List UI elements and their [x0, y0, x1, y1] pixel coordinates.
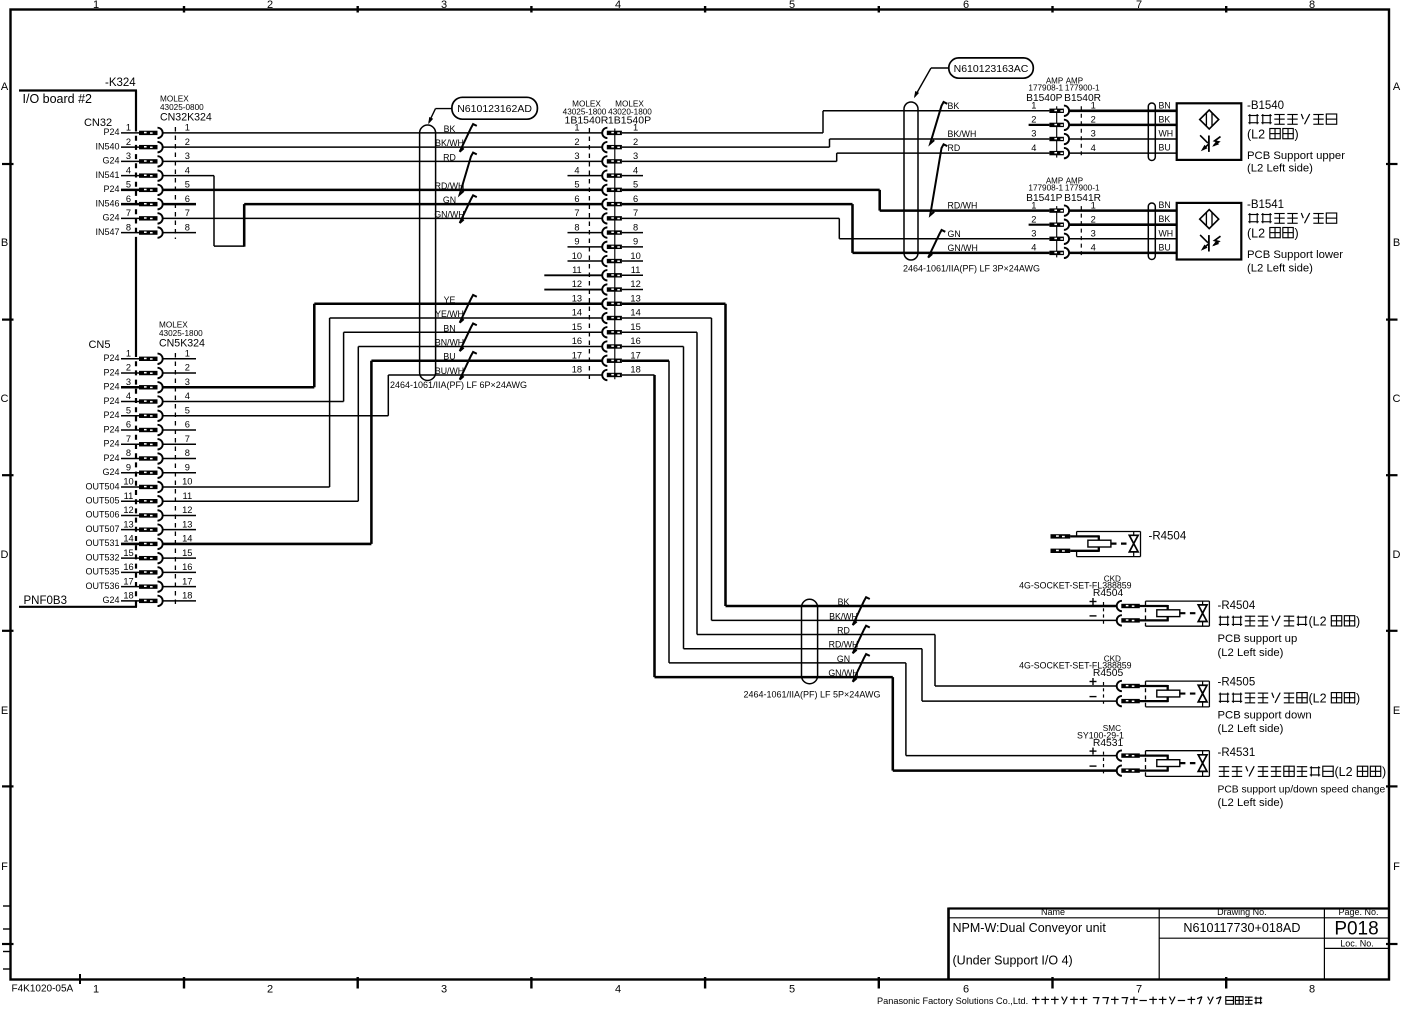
svg-text:9: 9 — [633, 237, 638, 247]
frame column ticks — [184, 6, 1226, 989]
svg-text:N610123162AD: N610123162AD — [457, 103, 532, 115]
connector B1541P/B1541R pin 1 — [1049, 205, 1069, 215]
svg-text:7: 7 — [1136, 984, 1142, 996]
svg-text:(L2: (L2 — [1247, 227, 1265, 241]
connector CN32 pin 7 (G24) — [102, 208, 189, 224]
svg-text:G24: G24 — [102, 213, 119, 223]
wire CN32-1 to 1B1540R-1 (BK) — [163, 132, 602, 134]
svg-text:14: 14 — [123, 534, 133, 544]
connector CN32 pin 3 (G24) — [102, 151, 189, 167]
svg-text:1B1540P: 1B1540P — [608, 114, 651, 126]
svg-text:6: 6 — [963, 0, 969, 11]
connector B1540P/B1540R pin 2 — [1049, 120, 1069, 130]
wire B1540R-2 to sensor (BK) — [1069, 124, 1177, 127]
svg-text:3: 3 — [1031, 129, 1036, 139]
connector CN5 pin 4 (P24) — [103, 391, 189, 407]
svg-text:C: C — [1393, 393, 1401, 405]
solenoid valve coil R4504 — [1090, 598, 1210, 626]
wire B1541R-4 to sensor (BU) — [1069, 252, 1177, 255]
svg-text:6: 6 — [963, 984, 969, 996]
sensor cable sheath B1540 — [1148, 103, 1155, 161]
wire 1B1540P-1 to B1540P-1 (BK) — [622, 111, 1050, 133]
svg-text:6: 6 — [574, 194, 579, 204]
connector CN5 pin 9 (G24) — [102, 462, 189, 478]
svg-text:1: 1 — [1031, 200, 1036, 210]
svg-text:(L2 Left side): (L2 Left side) — [1247, 262, 1313, 274]
svg-text:4: 4 — [615, 0, 621, 11]
connector CN5 pin 18 (G24) — [102, 591, 192, 607]
svg-text:BU: BU — [1159, 143, 1171, 153]
connector 1B1540R/1B1540P pin 3 — [574, 151, 638, 167]
valve R4504 spare symbol — [1051, 532, 1141, 557]
svg-text:15: 15 — [572, 322, 582, 332]
connector 1B1540R/1B1540P pin 11 — [572, 265, 640, 281]
svg-text:6: 6 — [185, 420, 190, 430]
svg-text:OUT506: OUT506 — [85, 510, 119, 520]
frame grid letters — [1, 81, 1401, 873]
svg-text:BN: BN — [1159, 200, 1171, 210]
wire 1B1540P-17 to R4531 plus (GN) — [622, 361, 1117, 756]
svg-text:BK: BK — [948, 101, 960, 111]
connector B1540P/B1540R pin 4 — [1049, 148, 1069, 158]
svg-text:GN/WH: GN/WH — [948, 243, 978, 253]
svg-text:P24: P24 — [103, 439, 119, 449]
svg-text:177908-1: 177908-1 — [1028, 84, 1063, 93]
svg-text:PCB support down: PCB support down — [1218, 709, 1312, 721]
wire stubs 1B1540P right unused — [622, 176, 643, 290]
svg-text:PCB Support upper: PCB Support upper — [1247, 150, 1345, 162]
svg-text:CN5: CN5 — [88, 339, 110, 351]
svg-text:16: 16 — [572, 336, 582, 346]
svg-text:2: 2 — [267, 984, 273, 996]
wire B1540R-1 to sensor (BN) — [1069, 110, 1177, 113]
svg-text:5: 5 — [789, 0, 795, 11]
svg-text:PCB support up/down speed chan: PCB support up/down speed change — [1218, 785, 1386, 796]
svg-text:P24: P24 — [103, 453, 119, 463]
svg-text:11: 11 — [631, 265, 641, 275]
valve R4531 text labels — [1218, 747, 1387, 809]
svg-text:Page. No.: Page. No. — [1338, 907, 1378, 917]
svg-text:B: B — [1, 237, 8, 249]
svg-text:OUT532: OUT532 — [85, 552, 119, 562]
cable sheath N610123162AD (6P) — [420, 125, 436, 381]
svg-text:RD: RD — [443, 152, 456, 162]
valve R4504 spare label — [1149, 531, 1187, 543]
connector CN5 pin 7 (P24) — [103, 434, 189, 450]
connector pair B1540P B1540R labels — [1026, 77, 1101, 158]
svg-text:PCB support up: PCB support up — [1218, 633, 1298, 645]
svg-text:7: 7 — [574, 208, 579, 218]
svg-text:1B1540R: 1B1540R — [565, 114, 609, 126]
svg-text:RD/WH: RD/WH — [829, 640, 859, 650]
svg-text:14: 14 — [182, 534, 192, 544]
svg-text:YE/WH: YE/WH — [435, 309, 464, 319]
svg-text:4: 4 — [1031, 243, 1036, 253]
svg-text:1: 1 — [1091, 101, 1096, 111]
svg-text:2: 2 — [633, 137, 638, 147]
svg-text:BK: BK — [444, 124, 456, 134]
svg-text:OUT536: OUT536 — [85, 581, 119, 591]
svg-text:2: 2 — [1091, 214, 1096, 224]
wire CN5-4 to 1B1540R-15 (BN) — [163, 332, 602, 401]
svg-text:3: 3 — [185, 377, 190, 387]
connector 1B1540R/1B1540P pin 15 — [572, 322, 641, 338]
svg-text:OUT505: OUT505 — [85, 496, 119, 506]
wire CN32-5 to 1B1540R-5 (RD/WH) — [163, 189, 602, 192]
svg-text:BN: BN — [1159, 100, 1171, 110]
wire 1B1540P-5 to B1541P-1 (RD/WH) — [622, 190, 1050, 211]
connector 1B1540R/1B1540P pin 5 — [574, 180, 638, 196]
svg-text:2: 2 — [1031, 115, 1036, 125]
valve R4504 text labels — [1218, 600, 1361, 659]
svg-text:43025-0800: 43025-0800 — [160, 103, 204, 112]
wire stubs CN5 unused pins — [163, 359, 196, 601]
svg-text:1: 1 — [126, 123, 131, 133]
svg-text:N610123163AC: N610123163AC — [954, 63, 1029, 75]
svg-text:3: 3 — [1091, 229, 1096, 239]
connector CN32 pin 5 (P24) — [103, 180, 189, 196]
svg-text:3: 3 — [185, 151, 190, 161]
svg-text:15: 15 — [123, 548, 133, 558]
connector CN5 pin 13 (OUT507) — [85, 519, 192, 535]
valve R4504 part labels — [1019, 575, 1132, 599]
svg-text:1: 1 — [185, 123, 190, 133]
svg-text:18: 18 — [572, 365, 582, 375]
svg-text:2: 2 — [185, 363, 190, 373]
svg-text:G24: G24 — [102, 595, 119, 605]
svg-text:13: 13 — [182, 519, 192, 529]
connector B1541P/B1541R pin 2 — [1049, 220, 1069, 230]
svg-text:2: 2 — [1091, 115, 1096, 125]
svg-text:IN541: IN541 — [95, 170, 119, 180]
svg-text:12: 12 — [182, 505, 192, 515]
svg-text:2: 2 — [267, 0, 273, 11]
connector pair 1B1540R 1B1540P labels — [563, 100, 653, 127]
connector CN5 pin 10 (OUT504) — [85, 477, 192, 493]
svg-text:F: F — [1, 861, 8, 873]
connector CN32 dashed boundary — [174, 127, 176, 239]
svg-text:(L2 Left side): (L2 Left side) — [1218, 647, 1284, 659]
cable label balloon N610123162AD — [428, 97, 537, 124]
svg-text:7: 7 — [185, 208, 190, 218]
connector B1541P/B1541R pin 4 — [1049, 248, 1069, 258]
svg-text:3: 3 — [1031, 229, 1036, 239]
svg-text:P24: P24 — [103, 424, 119, 434]
valve R4531 part labels — [1077, 724, 1124, 749]
svg-text:P24: P24 — [103, 184, 119, 194]
svg-text:1: 1 — [126, 349, 131, 359]
svg-text:BK: BK — [1159, 114, 1171, 124]
connector CN5 pin 14 (OUT531) — [85, 534, 192, 550]
svg-text:1: 1 — [93, 0, 99, 11]
connector 1B1540R/1B1540P pin 7 — [574, 208, 638, 224]
svg-text:8: 8 — [185, 448, 190, 458]
svg-text:2: 2 — [1031, 214, 1036, 224]
connector CN5 pin 12 (OUT506) — [85, 505, 192, 521]
connector CN5 pin 2 (P24) — [103, 363, 189, 379]
svg-text:BU: BU — [443, 352, 455, 362]
wire 1B1540P-15 to R4505 plus (RD) — [622, 332, 1117, 686]
svg-text:-K324: -K324 — [105, 77, 136, 89]
svg-text:11: 11 — [124, 491, 134, 501]
cable spec 5P x 24AWG — [744, 690, 881, 700]
svg-text:1: 1 — [1091, 200, 1096, 210]
connector CN5 / CN5K324 labels — [88, 321, 205, 352]
svg-text:177908-1: 177908-1 — [1028, 183, 1063, 192]
connector CN32 pin 2 (IN540) — [95, 137, 189, 153]
svg-text:4: 4 — [615, 984, 621, 996]
svg-text:R4504: R4504 — [1093, 588, 1124, 599]
svg-text:4: 4 — [1091, 143, 1096, 153]
svg-text:N610117730+018AD: N610117730+018AD — [1183, 921, 1300, 935]
svg-text:2464-1061/IIA(PF) LF 3P×24AWG: 2464-1061/IIA(PF) LF 3P×24AWG — [903, 263, 1040, 273]
svg-text:4: 4 — [185, 391, 190, 401]
svg-text:1: 1 — [93, 984, 99, 996]
wire CN5-11 to 1B1540R-16 (BN/WH) — [163, 347, 602, 502]
svg-text:13: 13 — [630, 293, 640, 303]
svg-text:D: D — [1, 549, 9, 561]
wire colour labels on 5P cable — [828, 597, 869, 682]
photoelectric sensor B1541 — [1177, 203, 1242, 260]
svg-text:BK/WH: BK/WH — [435, 138, 464, 148]
svg-text:P24: P24 — [103, 396, 119, 406]
connector CN5 pin 15 (OUT532) — [85, 548, 192, 564]
svg-text:4: 4 — [126, 391, 131, 401]
connector CN5 pin 6 (P24) — [103, 420, 189, 436]
svg-text:2: 2 — [574, 137, 579, 147]
svg-text:RD/WH: RD/WH — [435, 181, 465, 191]
svg-text:8: 8 — [1309, 984, 1315, 996]
svg-text:BK: BK — [838, 597, 850, 607]
wire 1B1540P-13 to R4504 plus (BK) — [622, 304, 1117, 606]
connector CN32 pin 1 (P24) — [103, 123, 189, 139]
svg-text:15: 15 — [182, 548, 192, 558]
svg-text:P24: P24 — [103, 382, 119, 392]
svg-text:17: 17 — [572, 350, 582, 360]
svg-text:1: 1 — [185, 349, 190, 359]
svg-text:9: 9 — [574, 237, 579, 247]
svg-text:WH: WH — [1159, 228, 1174, 238]
svg-text:IN547: IN547 — [95, 227, 119, 237]
svg-text:BK: BK — [1159, 214, 1171, 224]
svg-text:16: 16 — [182, 562, 192, 572]
svg-text:10: 10 — [182, 477, 192, 487]
form number F4K1020-05A — [12, 984, 74, 995]
wire CN5-3 to 1B1540R-13 (YE) — [163, 304, 602, 388]
connector 1B1540R/1B1540P pin 18 — [572, 365, 641, 381]
svg-text:GN: GN — [837, 654, 850, 664]
title block — [949, 907, 1390, 980]
svg-text:18: 18 — [123, 591, 133, 601]
svg-text:(L2: (L2 — [1247, 128, 1265, 142]
svg-text:): ) — [1295, 227, 1299, 241]
svg-text:7: 7 — [185, 434, 190, 444]
svg-text:177900-1: 177900-1 — [1065, 183, 1100, 192]
svg-text:7: 7 — [126, 208, 131, 218]
svg-text:7: 7 — [126, 434, 131, 444]
svg-text:BN/WH: BN/WH — [435, 338, 464, 348]
svg-text:OUT504: OUT504 — [85, 481, 119, 491]
connector 1B1540R/1B1540P pin 13 — [572, 293, 641, 309]
svg-text:Loc. No.: Loc. No. — [1340, 939, 1374, 949]
svg-text:A: A — [1, 81, 9, 93]
svg-text:Panasonic Factory Solutions Co: Panasonic Factory Solutions Co.,Ltd. — [877, 996, 1028, 1006]
svg-text:BK/WH: BK/WH — [948, 129, 977, 139]
svg-text:IN540: IN540 — [95, 141, 119, 151]
svg-text:16: 16 — [123, 562, 133, 572]
svg-text:17: 17 — [182, 576, 192, 586]
connector CN5 pin 3 (P24) — [103, 377, 189, 393]
svg-text:): ) — [1382, 765, 1386, 779]
wire colour labels on 3P cable — [928, 101, 978, 258]
svg-text:GN/WH: GN/WH — [434, 209, 464, 219]
svg-text:CN5K324: CN5K324 — [159, 338, 205, 350]
svg-text:1: 1 — [633, 123, 638, 133]
connector 1B1540R/1B1540P pin 14 — [572, 308, 641, 324]
wire 1B1540P-2 to B1540P-3 (BK/WH) — [622, 139, 1050, 147]
svg-text:I/O board #2: I/O board #2 — [23, 92, 93, 106]
svg-text:11: 11 — [182, 491, 192, 501]
svg-text:4: 4 — [574, 165, 579, 175]
connector B1540P/B1540R pin 3 — [1049, 134, 1069, 144]
svg-text:4: 4 — [633, 165, 638, 175]
svg-text:2464-1061/IIA(PF) LF 6P×24AWG: 2464-1061/IIA(PF) LF 6P×24AWG — [390, 380, 527, 390]
svg-text:12: 12 — [123, 505, 133, 515]
svg-text:5: 5 — [126, 180, 131, 190]
svg-text:P24: P24 — [103, 367, 119, 377]
connector 1B1540 body line — [614, 129, 616, 380]
svg-text:6: 6 — [126, 420, 131, 430]
connector 1B1540R/1B1540P pin 9 — [574, 237, 638, 253]
svg-text:2: 2 — [126, 363, 131, 373]
svg-text:PCB Support lower: PCB Support lower — [1247, 249, 1343, 261]
svg-text:15: 15 — [630, 322, 640, 332]
svg-text:-B1540: -B1540 — [1247, 100, 1284, 112]
connector CN5 pin 16 (OUT535) — [85, 562, 192, 578]
svg-text:3: 3 — [126, 377, 131, 387]
connector 1B1540R/1B1540P pin 4 — [574, 165, 638, 181]
svg-text:4: 4 — [126, 165, 131, 175]
connector B1541P/B1541R pin 3 — [1049, 234, 1069, 244]
wire CN5-14 to 1B1540R-17 (BU) — [163, 361, 602, 544]
connector 1B1540R/1B1540P pin 17 — [572, 350, 641, 366]
sensor wire labels B1541 — [1159, 200, 1174, 252]
svg-text:6: 6 — [185, 194, 190, 204]
svg-text:3: 3 — [126, 151, 131, 161]
wire 1B1540P-3 to B1540P-4 (RD) — [622, 153, 1050, 161]
connector CN32 pin 4 (IN541) — [95, 165, 189, 181]
svg-text:F: F — [1393, 861, 1400, 873]
connector CN5 dashed boundary — [174, 353, 176, 606]
svg-text:YE: YE — [444, 295, 456, 305]
connector CN32 / CN32K324 labels — [84, 95, 212, 130]
svg-text:F4K1020-05A: F4K1020-05A — [12, 984, 74, 995]
svg-text:BN: BN — [443, 323, 455, 333]
node PNF0B3 — [19, 595, 137, 607]
svg-text:8: 8 — [126, 448, 131, 458]
cable spec 3P x 24AWG — [903, 263, 1040, 273]
svg-text:R4505: R4505 — [1093, 668, 1124, 679]
company name footer — [877, 996, 1262, 1006]
connector CN32 pin 8 (IN547) — [95, 222, 189, 238]
I/O board K324 outline — [19, 77, 137, 607]
solenoid valve coil R4531 — [1090, 748, 1210, 777]
svg-text:12: 12 — [630, 279, 640, 289]
cable label balloon N610123163AC — [914, 58, 1033, 98]
connector 1B1540R/1B1540P pin 6 — [574, 194, 638, 210]
svg-text:8: 8 — [633, 222, 638, 232]
connector CN5 pin 5 (P24) — [103, 405, 189, 421]
svg-text:P24: P24 — [103, 127, 119, 137]
svg-text:(L2 Left side): (L2 Left side) — [1247, 162, 1313, 174]
cable sheath 5P to valves — [802, 599, 818, 683]
svg-text:8: 8 — [574, 222, 579, 232]
photoelectric sensor B1540 — [1177, 103, 1242, 160]
svg-text:(L2 Left side): (L2 Left side) — [1218, 797, 1284, 809]
svg-text:RD: RD — [948, 143, 961, 153]
svg-text:7: 7 — [1136, 0, 1142, 11]
svg-text:D: D — [1393, 549, 1401, 561]
svg-text:GN: GN — [443, 195, 456, 205]
svg-text:IN546: IN546 — [95, 198, 119, 208]
connector 1B1540R/1B1540P pin 10 — [572, 251, 641, 267]
svg-text:-R4505: -R4505 — [1218, 677, 1256, 689]
sensor wire labels B1540 — [1159, 100, 1174, 152]
svg-text:G24: G24 — [102, 156, 119, 166]
wire CN32-7 to 1B1540R-7 (GN/WH) — [163, 217, 602, 219]
svg-text:GN: GN — [948, 229, 961, 239]
svg-text:-R4504: -R4504 — [1149, 531, 1187, 543]
cable sheath N610123163AC (3P) — [904, 102, 918, 260]
svg-text:9: 9 — [185, 462, 190, 472]
svg-text:PNF0B3: PNF0B3 — [24, 595, 67, 607]
svg-text:6: 6 — [126, 194, 131, 204]
svg-text:(Under Support I/O 4): (Under Support I/O 4) — [953, 954, 1073, 968]
svg-text:11: 11 — [572, 265, 582, 275]
cable spec 6P x 24AWG — [390, 380, 527, 390]
svg-text:3: 3 — [633, 151, 638, 161]
svg-text:5: 5 — [789, 984, 795, 996]
svg-text:177900-1: 177900-1 — [1065, 84, 1100, 93]
svg-text:E: E — [1, 705, 8, 717]
svg-text:3: 3 — [441, 984, 447, 996]
svg-text:(L2: (L2 — [1335, 765, 1353, 779]
svg-text:16: 16 — [630, 336, 640, 346]
svg-text:E: E — [1393, 705, 1400, 717]
svg-text:1: 1 — [574, 123, 579, 133]
svg-text:8: 8 — [126, 222, 131, 232]
svg-text:18: 18 — [630, 365, 640, 375]
wire 1B1540P-16 to R4505 minus (RD/WH) — [622, 347, 1117, 702]
svg-text:): ) — [1356, 615, 1360, 629]
svg-text:4: 4 — [1091, 243, 1096, 253]
wire 1B1540P-18 to R4531 minus (GN/WH) — [622, 375, 1117, 771]
svg-text:-R4531: -R4531 — [1218, 747, 1256, 759]
svg-text:5: 5 — [126, 405, 131, 415]
wire B1541R-2 to sensor (BK) — [1069, 223, 1177, 226]
svg-text:OUT531: OUT531 — [85, 538, 119, 548]
wire stubs 1B1540R left unused — [544, 176, 601, 290]
svg-text:-B1541: -B1541 — [1247, 199, 1284, 211]
svg-text:13: 13 — [123, 519, 133, 529]
svg-text:8: 8 — [185, 222, 190, 232]
svg-text:17: 17 — [123, 576, 133, 586]
svg-text:OUT507: OUT507 — [85, 524, 119, 534]
connector pair B1541P B1541R labels — [1026, 176, 1101, 257]
svg-text:5: 5 — [574, 180, 579, 190]
svg-text:2: 2 — [126, 137, 131, 147]
svg-text:1: 1 — [1031, 101, 1036, 111]
